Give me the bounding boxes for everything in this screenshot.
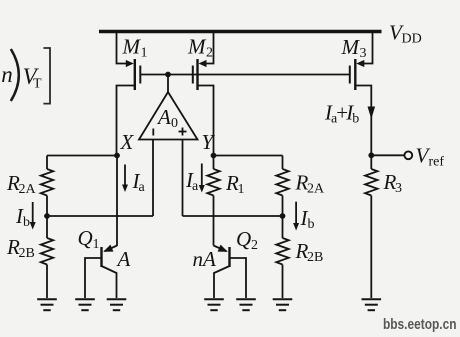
svg-text:Q: Q — [78, 226, 93, 250]
gate line M1-M2-M3 — [140, 74, 349, 76]
svg-text:T: T — [33, 77, 42, 92]
resistor R2A right — [276, 169, 288, 196]
equation fragment big paren — [11, 49, 19, 101]
wire M3 source from VDD — [361, 33, 373, 64]
resistor R2A left — [41, 169, 53, 196]
wire Q1 collector to ground — [102, 266, 117, 298]
wire R3 to ground — [370, 196, 372, 299]
svg-text:2B: 2B — [19, 246, 35, 261]
transistor M3 gate bar — [349, 66, 351, 84]
equation fragment bracket — [43, 48, 50, 104]
wire M2 source from VDD — [202, 33, 214, 64]
wire R2A right to tap node — [282, 196, 284, 239]
node Y — [211, 153, 217, 159]
wire Q2 base to ground — [230, 258, 247, 298]
node right divider tap — [280, 213, 286, 219]
wire R2B right to ground — [282, 265, 284, 299]
arrowhead Ia+Ib current on M3 drain — [368, 107, 376, 120]
current arrow Ib left — [32, 202, 34, 223]
current arrow Ia left — [124, 165, 126, 186]
arrowhead Ib right — [293, 223, 299, 231]
svg-text:2: 2 — [206, 46, 213, 61]
wire left divider tap to op-amp minus — [47, 215, 153, 217]
wire X node to left divider — [47, 155, 117, 157]
wire M1 drain to node X — [117, 86, 135, 156]
svg-text:A: A — [156, 105, 171, 129]
wire R2B left to ground — [46, 265, 48, 299]
op-amp A0 — [139, 92, 198, 140]
svg-text:A: A — [116, 247, 131, 271]
svg-text:M: M — [122, 35, 142, 59]
wire Vref node to R3 — [370, 155, 372, 169]
ground Q2 collector — [204, 299, 224, 310]
svg-text:2A: 2A — [307, 182, 325, 197]
wire node X corner to R2A left — [46, 156, 48, 170]
arrowhead Ia left — [122, 185, 128, 193]
wire M3 drain to node Vref — [355, 86, 371, 156]
svg-text:nA: nA — [193, 247, 217, 271]
svg-text:2: 2 — [251, 238, 258, 253]
arrowhead Ia right — [199, 185, 205, 193]
arrowhead Q2 emitter — [218, 245, 230, 256]
node Vref — [368, 152, 374, 158]
svg-text:b: b — [308, 217, 315, 232]
ground Q2 base — [236, 299, 256, 310]
svg-text:ref: ref — [429, 155, 445, 170]
resistor R2B left — [41, 238, 53, 265]
wire M2 drain to node Y — [198, 86, 214, 156]
transistor M1 channel bar — [134, 59, 136, 90]
wire node Y to R1 — [213, 156, 215, 170]
svg-text:DD: DD — [402, 32, 422, 47]
current arrow Ib right — [295, 202, 297, 224]
arrowhead M1 source — [126, 60, 134, 67]
arrowhead Q1 emitter — [102, 245, 114, 256]
resistor R2B right — [276, 238, 288, 265]
svg-text:a: a — [192, 179, 199, 194]
transistor M1 gate bar — [139, 66, 141, 84]
terminal Vref open circle — [404, 151, 412, 159]
transistor Q1 emitter wire — [105, 246, 118, 252]
transistor M3 channel bar — [354, 59, 356, 90]
svg-text:bbs.eetop.cn: bbs.eetop.cn — [383, 316, 457, 333]
svg-text:0: 0 — [171, 116, 178, 131]
wire R2A left to tap node — [46, 196, 48, 239]
current arrow Ia right — [201, 164, 203, 186]
ground R3 — [362, 299, 382, 310]
resistor R1 — [207, 169, 219, 196]
svg-text:Q: Q — [236, 227, 251, 251]
ground right divider — [273, 299, 293, 310]
wire Vref node to output terminal — [371, 154, 404, 156]
transistor Q2 emitter wire — [214, 246, 227, 252]
wire op-amp output to gate line — [167, 75, 169, 94]
arrowhead M3 source — [356, 60, 364, 67]
transistor Q1 base bar — [100, 247, 102, 267]
wire Y node to right divider — [214, 155, 283, 157]
ground Q1 collector — [107, 299, 127, 310]
svg-text:M: M — [341, 35, 361, 59]
wire Q1 base to ground — [85, 258, 102, 298]
node dot: gate line — [165, 72, 171, 78]
transistor Q2 base bar — [228, 247, 230, 267]
ground left divider — [37, 299, 57, 310]
wire right divider tap to op-amp plus — [183, 215, 283, 217]
ground Q1 base — [75, 299, 95, 310]
svg-text:3: 3 — [395, 181, 402, 196]
svg-text:X: X — [120, 130, 135, 154]
svg-text:3: 3 — [360, 46, 367, 61]
arrowhead M2 source — [199, 60, 207, 67]
svg-text:M: M — [187, 35, 207, 59]
svg-text:b: b — [23, 215, 30, 230]
wire op-amp inverting input — [152, 140, 154, 217]
svg-text:1: 1 — [93, 237, 100, 252]
arrowhead Ib left — [30, 222, 36, 230]
node X — [114, 153, 120, 159]
resistor R3 — [365, 169, 377, 196]
VDD rail — [99, 30, 382, 33]
svg-text:2B: 2B — [307, 250, 323, 265]
node left divider tap — [44, 213, 50, 219]
op-amp plus marker — [179, 131, 187, 133]
svg-text:a: a — [139, 180, 146, 195]
svg-text:2A: 2A — [19, 182, 37, 197]
svg-text:b: b — [352, 112, 359, 127]
wire X column down to Q1 — [116, 156, 118, 247]
svg-text:1: 1 — [238, 182, 245, 197]
op-amp minus marker — [152, 129, 154, 136]
wire op-amp non-inverting input — [182, 140, 184, 217]
svg-text:1: 1 — [141, 46, 148, 61]
svg-text:n: n — [1, 62, 13, 87]
transistor M2 channel bar — [196, 59, 198, 90]
wire M1 source from VDD — [117, 33, 130, 64]
wire R1 to Q2 emitter — [213, 196, 215, 246]
transistor M2 gate bar — [192, 66, 194, 84]
wire node Y corner to R2A right — [282, 156, 284, 170]
wire Q2 collector to ground — [214, 266, 230, 298]
